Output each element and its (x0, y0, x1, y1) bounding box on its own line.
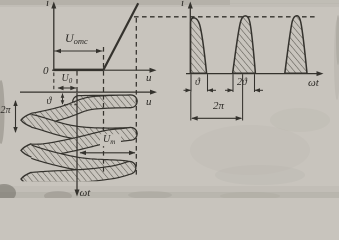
dashed projection line: peak current level (134, 16, 316, 18)
label i on left graph vertical axis (46, 0, 49, 9)
sinusoid negative half-wave pointed tip near wt=150.4 (19, 142, 32, 160)
i axis of transfer characteristic graph (53, 4, 55, 71)
label u on lower axis (146, 97, 152, 108)
label Uots cutoff voltage (65, 32, 88, 46)
dashed projection line: bias voltage U0 vertical (76, 71, 78, 93)
dimension arrows for cutoff angle theta under pulse 1 (184, 89, 192, 91)
u axis of transfer characteristic graph (52, 69, 152, 71)
dashed continuation of i axis below origin (53, 73, 55, 92)
label 2pi sinusoid period (1, 106, 11, 116)
dimension arrows for conduction angle 2-theta under pulse 2 (225, 89, 233, 91)
label theta cutoff angle (195, 78, 200, 88)
dimension arrow for voltage amplitude Um (100, 134, 121, 146)
dimension arrow for bias voltage U0 (58, 87, 76, 89)
hatched current pulse 2 (233, 16, 256, 73)
dimension arrow for one period 2pi of pulse train (192, 117, 241, 119)
input sinusoid u(wt): hatched serpentine pass 1 (28, 101, 131, 120)
input sinusoid u(wt): hatched serpentine pass 2 (28, 120, 131, 134)
dimension arrow for one period 2pi of sinusoid (15, 101, 17, 132)
label theta cutoff phase of sinusoid (47, 97, 52, 107)
sinusoid negative half-wave pointed tip near wt=179.0 (19, 170, 32, 188)
dashed projection line: peak voltage U0+Um vertical (135, 18, 137, 175)
label 2theta conduction angle (237, 78, 247, 88)
wt axis of current pulse graph (186, 73, 319, 75)
transfer characteristic i(u): rising linear segment (103, 3, 138, 70)
label U0 bias voltage (62, 74, 73, 85)
input sinusoid u(wt): hatched serpentine pass 0 (79, 94, 131, 108)
i axis of current pulse graph (189, 4, 191, 74)
label u on upper axis (146, 73, 152, 84)
paper scan noise: edge streaks and blots (0, 0, 230, 5)
sinusoid negative half-wave pointed tip near wt=120.1 (19, 111, 32, 129)
transfer characteristic i(u): flat cutoff segment (54, 69, 104, 72)
label wt pulse graph time axis (308, 78, 319, 89)
dashed projection line: cutoff voltage Uots vertical (103, 47, 105, 175)
label i on pulse graph vertical axis (181, 0, 184, 9)
input sinusoid u(wt): hatched serpentine pass 3 (28, 134, 131, 151)
input sinusoid u(wt): hatched serpentine pass 5 (29, 168, 130, 179)
u axis of input sinusoid graph (20, 91, 153, 93)
label 0 at origin (43, 66, 49, 77)
tick marks below pulse graph axis (190, 74, 192, 91)
input sinusoid u(wt): hatched serpentine pass 4 (28, 150, 130, 167)
small dimension arrow for cutoff phase theta (62, 94, 64, 105)
wt axis pointing downward through bias point U0 (76, 93, 78, 193)
label Um voltage amplitude (103, 135, 115, 146)
hatched current pulse 3 (285, 16, 307, 74)
label 2pi pulse period (213, 101, 224, 112)
dash-dot level mark where sinusoid crosses Uots (64, 104, 77, 106)
dimension arrow for cutoff voltage Uots (55, 50, 103, 52)
label wt downward time axis (80, 188, 91, 199)
hatched current pulse 1 (191, 18, 207, 73)
